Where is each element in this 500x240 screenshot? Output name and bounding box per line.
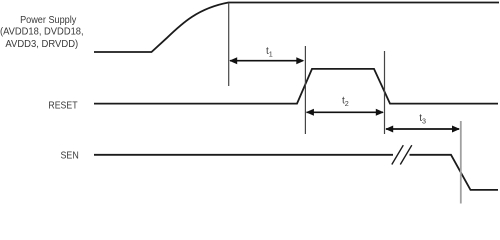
node Power Supply label xyxy=(0,15,84,50)
node reference line 2 (RESET rise) xyxy=(304,46,306,134)
svg-text:AVDD3, DRVDD): AVDD3, DRVDD) xyxy=(5,39,78,50)
wire t1 dimension arrow xyxy=(229,57,304,64)
svg-text:Power Supply: Power Supply xyxy=(20,15,76,26)
svg-text:t2: t2 xyxy=(342,96,349,108)
wire t3 dimension arrow xyxy=(385,126,460,133)
node reference line 1 (power good) xyxy=(228,3,230,87)
svg-text:t1: t1 xyxy=(266,46,273,58)
svg-text:SEN: SEN xyxy=(61,150,79,161)
svg-text:RESET: RESET xyxy=(48,100,77,111)
wire power-supply waveform xyxy=(94,3,499,53)
wire t2 dimension arrow xyxy=(306,109,384,116)
svg-text:t3: t3 xyxy=(419,113,426,125)
node reference line 3 (RESET fall) xyxy=(384,51,386,134)
wire SEN waveform xyxy=(94,155,498,190)
wire RESET waveform xyxy=(94,69,498,104)
break symbol on SEN xyxy=(392,145,412,164)
svg-text:(AVDD18, DVDD18,: (AVDD18, DVDD18, xyxy=(0,27,84,38)
node reference line 4 (SEN fall, gray) xyxy=(460,121,462,204)
